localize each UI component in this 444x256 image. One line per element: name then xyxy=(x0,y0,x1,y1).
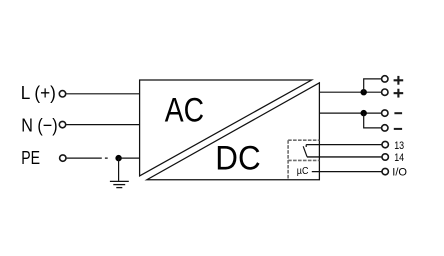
ground xyxy=(110,181,129,187)
converter U1 DC section xyxy=(147,83,320,180)
terminal circle I/O xyxy=(382,168,388,174)
wire - branch down xyxy=(364,113,382,128)
wire DC- output xyxy=(319,112,381,114)
terminal circle PE xyxy=(60,155,66,161)
terminal circle - upper xyxy=(382,110,388,116)
svg-text:DC: DC xyxy=(215,139,260,177)
wire N to converter xyxy=(66,124,139,126)
svg-text:N (−): N (−) xyxy=(21,115,57,136)
wire + branch up xyxy=(364,79,382,92)
junction - node xyxy=(361,110,367,116)
dashed block uC controller xyxy=(288,140,319,180)
svg-text:L (+): L (+) xyxy=(21,82,56,103)
label - upper xyxy=(394,112,402,114)
terminal circle 14 xyxy=(382,154,388,160)
terminal circle 13 xyxy=(382,141,388,147)
terminal circle L xyxy=(59,91,65,97)
svg-text:I/O: I/O xyxy=(392,167,407,179)
wire PE dashed segment xyxy=(67,157,108,159)
svg-text:AC: AC xyxy=(165,92,204,130)
wire ground drop xyxy=(118,158,120,181)
wire I/O xyxy=(312,171,382,173)
wire PE junction to converter xyxy=(119,157,140,159)
svg-text:µC: µC xyxy=(297,166,309,177)
terminal circle - lower xyxy=(382,125,388,131)
svg-text:13: 13 xyxy=(394,140,404,152)
relay contact K1 xyxy=(303,145,307,157)
label + upper xyxy=(394,76,404,85)
wire DC+ output xyxy=(319,91,381,93)
wire contact 13 xyxy=(306,144,381,146)
label + lower xyxy=(394,89,404,98)
svg-text:14: 14 xyxy=(394,152,404,164)
junction PE node xyxy=(115,155,121,161)
wire L to converter xyxy=(66,93,139,95)
terminal circle + lower xyxy=(382,89,388,95)
junction + node xyxy=(361,89,367,95)
terminal circle + upper xyxy=(382,76,388,82)
wire contact 14 xyxy=(307,156,382,158)
label - lower xyxy=(394,128,402,130)
svg-text:PE: PE xyxy=(21,147,40,168)
terminal circle N xyxy=(59,121,65,127)
converter U1 AC section xyxy=(140,80,312,176)
